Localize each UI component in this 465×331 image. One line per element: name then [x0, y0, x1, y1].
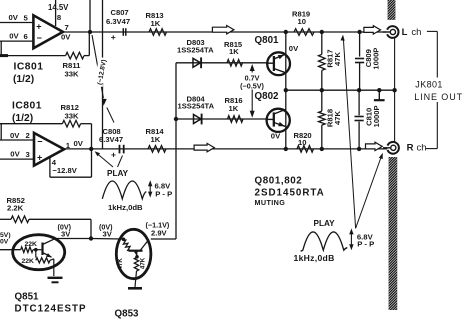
svg-text:7: 7 — [65, 23, 69, 32]
wire mute vertical Q801/Q802 — [285, 32, 287, 149]
svg-text:1kHz,0dB: 1kHz,0dB — [108, 203, 143, 212]
svg-text:0V: 0V — [9, 32, 19, 41]
svg-text:1000P: 1000P — [372, 105, 381, 127]
svg-text:6: 6 — [24, 32, 28, 41]
node sleeve line — [392, 88, 396, 92]
svg-text:22K: 22K — [25, 241, 38, 248]
svg-text:Q851: Q851 — [15, 292, 40, 303]
resistor R816 — [228, 116, 244, 123]
label (-12.8V) — [94, 57, 108, 87]
signal flow arrow R line — [194, 143, 214, 151]
svg-text:2.9V: 2.9V — [151, 228, 168, 237]
svg-text:0V: 0V — [10, 150, 20, 159]
svg-text:P - P: P - P — [155, 189, 172, 198]
transistor Q851 DTC124ESTP — [13, 235, 65, 270]
wire -12.8V feed vertical — [102, 0, 104, 149]
svg-text:0V: 0V — [0, 239, 9, 246]
op-amp U2 IC801 (1/2) lower — [34, 133, 64, 166]
svg-text:0V: 0V — [271, 131, 281, 140]
svg-text:(−0.5V): (−0.5V) — [240, 82, 264, 91]
svg-text:6.3V47: 6.3V47 — [99, 135, 123, 144]
node Q851 collector — [89, 236, 93, 240]
node R818 bottom — [320, 147, 324, 151]
svg-text:8: 8 — [57, 13, 62, 22]
svg-text:P - P: P - P — [357, 239, 374, 248]
svg-text:47K: 47K — [333, 111, 342, 125]
svg-text:47K: 47K — [140, 257, 147, 269]
resistor R815 — [227, 60, 243, 67]
svg-text:(1/2): (1/2) — [12, 113, 33, 124]
leader -12.8V — [92, 35, 103, 98]
node Q802 bottom — [284, 147, 288, 151]
leader PLAY to R jack — [356, 156, 382, 228]
resistor R811 — [66, 52, 84, 59]
measure arrow 6.8V left — [148, 180, 152, 186]
wire feedback U1 — [0, 54, 8, 57]
signal flow arrow L line — [212, 26, 234, 34]
node R819 right / R817 top — [320, 30, 324, 34]
diode D804 — [194, 115, 202, 124]
signal flow arrow to R jack — [366, 142, 383, 150]
wire R852 line — [0, 218, 11, 220]
wire pin5 input — [0, 22, 33, 24]
wire mute bus vertical — [175, 63, 177, 239]
jack R ch — [388, 142, 399, 154]
measure arrow 0.7V — [250, 64, 255, 71]
svg-text:1K: 1K — [151, 135, 161, 144]
svg-text:1: 1 — [66, 141, 71, 150]
resistor R814 — [148, 146, 166, 153]
transistor Q802 — [267, 109, 290, 132]
svg-text:Q853: Q853 — [115, 309, 140, 320]
svg-text:PLAY: PLAY — [107, 169, 129, 178]
svg-text:1SS254TA: 1SS254TA — [178, 102, 215, 111]
svg-text:22K: 22K — [22, 258, 35, 265]
svg-text:47K: 47K — [117, 258, 124, 270]
svg-text:0V: 0V — [289, 44, 299, 53]
ground Q853 — [128, 287, 142, 290]
svg-text:1K: 1K — [229, 47, 239, 56]
svg-text:10: 10 — [298, 17, 306, 26]
svg-text:2: 2 — [26, 131, 30, 140]
wire pin8 supply — [55, 0, 57, 26]
svg-text:Rch: Rch — [407, 143, 427, 154]
svg-text:1SS254TA: 1SS254TA — [177, 46, 214, 55]
bracket JK801 — [427, 30, 437, 32]
svg-text:C807: C807 — [111, 8, 129, 17]
svg-text:−: − — [37, 136, 42, 146]
svg-text:2.2K: 2.2K — [7, 204, 24, 213]
capacitor C807 — [122, 28, 124, 36]
wire feedback U2 — [0, 123, 62, 125]
node ground tap — [377, 88, 381, 92]
svg-text:+: + — [111, 32, 116, 42]
wire from top to output node — [89, 0, 91, 32]
wire mute mid line — [286, 89, 395, 91]
jack L ch — [387, 26, 398, 38]
node C809 top — [357, 30, 361, 34]
wire pin6 input — [0, 40, 33, 42]
resistor R819 — [294, 29, 314, 36]
op-amp U1 IC801 (1/2) upper — [33, 15, 63, 48]
wire pin2 input — [0, 139, 34, 141]
wire jack sleeve vertical — [394, 38, 396, 142]
capacitor C810 — [358, 90, 360, 115]
svg-text:Lch: Lch — [402, 27, 422, 38]
resistor R817 — [321, 32, 323, 54]
svg-text:IC801: IC801 — [14, 62, 44, 73]
node output U1 — [88, 30, 92, 34]
node C809/C810 — [357, 88, 361, 92]
svg-text:3V: 3V — [61, 230, 71, 239]
resistor R812 — [62, 120, 80, 127]
svg-text:0V: 0V — [74, 139, 84, 148]
signal flow arrow to L jack — [364, 26, 381, 34]
wire R channel line — [64, 148, 387, 150]
wire D803 branch — [176, 62, 267, 64]
arrowhead -12.8V — [102, 99, 107, 106]
resistor R818 — [321, 90, 323, 111]
node between Q801 Q802 — [284, 88, 288, 92]
svg-text:3V: 3V — [103, 230, 113, 239]
capacitor C808 — [119, 145, 121, 154]
svg-text:Q801,802: Q801,802 — [255, 176, 303, 187]
svg-text:0V: 0V — [61, 33, 71, 42]
capacitor C809 — [359, 32, 361, 57]
svg-text:47K: 47K — [333, 52, 342, 66]
leader to C808 label — [107, 108, 114, 123]
wire drive to Q853 — [91, 238, 124, 241]
svg-text:LINE OUT: LINE OUT — [414, 92, 463, 102]
leader PLAY to L line — [343, 39, 355, 228]
svg-text:14.5V: 14.5V — [48, 3, 69, 12]
ground Q851 — [48, 277, 63, 279]
svg-text:1K: 1K — [229, 104, 239, 113]
svg-text:+: + — [36, 21, 41, 31]
wire pin4 — [49, 157, 51, 177]
svg-text:Q802: Q802 — [255, 91, 280, 102]
svg-text:PLAY: PLAY — [314, 219, 336, 228]
measure arrow 6.8V right — [349, 228, 353, 234]
wire L channel line — [63, 31, 387, 33]
diode D803 — [193, 58, 201, 67]
resistor R852 — [11, 216, 29, 223]
waveform sine left — [102, 181, 146, 199]
svg-text:−: − — [37, 33, 42, 43]
transistor Q801 — [267, 52, 290, 75]
svg-text:Q801: Q801 — [255, 35, 280, 46]
svg-text:IC801: IC801 — [12, 100, 42, 111]
waveform sine right — [301, 232, 348, 251]
svg-text:+: + — [37, 153, 42, 163]
svg-text:1kHz,0dB: 1kHz,0dB — [294, 253, 335, 263]
node D804 branch — [174, 117, 178, 121]
wire Q851 base — [0, 249, 21, 251]
resistor R813 — [149, 29, 167, 36]
svg-text:0V: 0V — [9, 13, 19, 22]
svg-text:+: + — [111, 149, 116, 159]
svg-text:10: 10 — [298, 138, 306, 147]
svg-text:JK801: JK801 — [415, 80, 443, 90]
svg-text:DTC124ESTP: DTC124ESTP — [15, 304, 87, 315]
node output U2 — [89, 147, 93, 151]
resistor R820 — [297, 146, 314, 153]
transistor Q853 — [116, 229, 151, 278]
wire pin3 input — [0, 158, 34, 160]
svg-text:MUTING: MUTING — [255, 198, 286, 207]
svg-text:(1/2): (1/2) — [13, 74, 34, 85]
svg-text:−12.8V: −12.8V — [53, 166, 78, 175]
svg-text:5: 5 — [24, 13, 29, 22]
svg-text:33K: 33K — [65, 112, 80, 121]
svg-text:0V: 0V — [10, 131, 20, 140]
svg-text:6.3V47: 6.3V47 — [106, 17, 130, 26]
svg-text:3: 3 — [26, 150, 30, 159]
leader PLAY left — [97, 153, 114, 167]
wire D804 branch — [176, 118, 267, 120]
node R817/R818 — [320, 88, 324, 92]
node C810 bottom — [357, 147, 361, 151]
svg-text:1000P: 1000P — [371, 48, 380, 70]
wire R852 down — [90, 219, 92, 238]
node Q801 top — [284, 30, 288, 34]
svg-text:1K: 1K — [151, 19, 161, 28]
wire collector line Q851 — [56, 238, 91, 240]
ground — [378, 90, 380, 99]
svg-text:33K: 33K — [65, 69, 80, 78]
